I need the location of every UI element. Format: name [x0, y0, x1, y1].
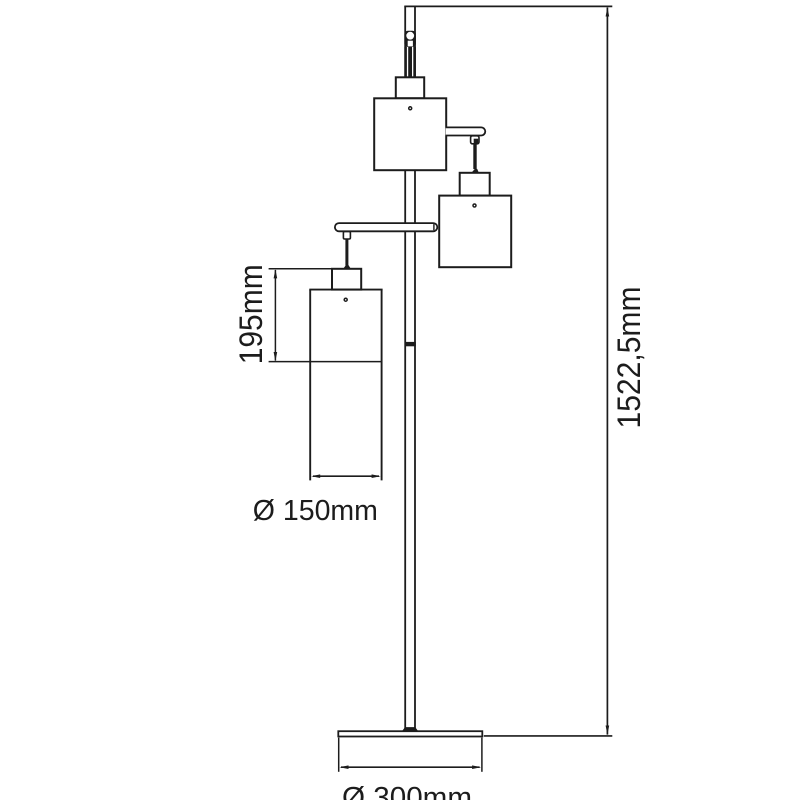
pendant stem 3: [345, 239, 348, 266]
lamp base: [338, 731, 482, 736]
height dimension line 1522,5mm: [606, 8, 608, 735]
pole left edge: [404, 6, 406, 730]
arm 1: [446, 127, 486, 135]
lamp socket 1: [396, 77, 424, 98]
extension line from pole top to height dimension: [404, 5, 612, 7]
svg-text:195mm: 195mm: [233, 264, 269, 364]
cord hook 2: [471, 136, 479, 144]
pole foot: [402, 727, 419, 732]
height extension line bottom: [484, 735, 613, 737]
svg-text:Ø 150mm: Ø 150mm: [253, 495, 378, 527]
rod slit right: [412, 47, 413, 78]
195mm arrow up: [274, 269, 278, 278]
195mm dimension line: [274, 270, 276, 361]
pole right edge: [414, 6, 416, 730]
pendant stem 2 flare: [471, 169, 478, 173]
arm 2 end cap line: [433, 224, 435, 230]
shade 2 pin dot: [473, 204, 476, 207]
base extension line right: [481, 738, 483, 772]
height arrow down: [606, 726, 610, 735]
shade 3 top edge: [309, 289, 382, 291]
finial shoulder: [404, 31, 416, 47]
195mm arrow down: [274, 352, 278, 361]
lamp socket 3: [332, 269, 361, 290]
pendant stem 3 flare: [343, 265, 351, 269]
shade 1 pin dot: [409, 107, 412, 110]
height arrow up: [606, 7, 610, 16]
cord hook 3: [343, 232, 350, 239]
lamp socket 2: [460, 173, 490, 196]
arm 2: [335, 223, 437, 231]
shade 3 left edge: [309, 290, 311, 481]
finial ball: [406, 32, 414, 40]
threaded rod: [404, 47, 416, 78]
diameter 300 dimension line: [341, 766, 480, 768]
diameter 150 arrow left: [311, 474, 320, 478]
pendant stem 2: [473, 144, 476, 170]
finial neck window: [408, 41, 413, 47]
shade 3 seam / 195mm lower reference: [269, 361, 382, 363]
195mm top extension line: [269, 268, 332, 270]
shade 3 right edge: [381, 290, 383, 481]
shade 2: [439, 196, 511, 268]
svg-text:Ø 300mm: Ø 300mm: [342, 782, 472, 800]
diameter 150 dimension line: [313, 475, 379, 477]
diameter 300 arrow right: [472, 765, 481, 769]
base extension line left: [338, 738, 340, 772]
shade 1: [374, 98, 446, 170]
diameter 150 arrow right: [372, 474, 381, 478]
shade 3 pin dot: [344, 298, 347, 301]
rod slit left: [407, 47, 408, 78]
pole joint sleeve: [405, 342, 416, 346]
diameter 300 arrow left: [340, 765, 349, 769]
hook 2 knot: [474, 139, 479, 144]
svg-text:1522,5mm: 1522,5mm: [611, 287, 647, 429]
